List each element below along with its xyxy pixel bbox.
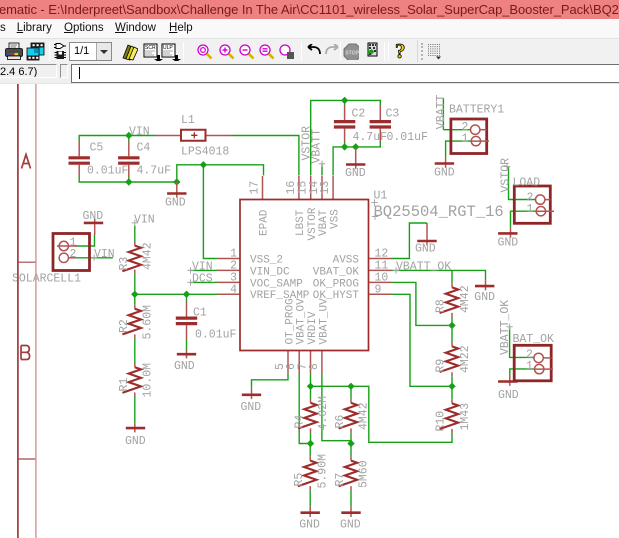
svg-text:ULP: ULP (163, 45, 173, 51)
svg-text:4.7uF: 4.7uF (137, 165, 172, 178)
svg-text:BAT_OK: BAT_OK (513, 333, 555, 346)
svg-text:C1: C1 (193, 307, 207, 320)
svg-text:SCR: SCR (145, 45, 156, 51)
svg-text:OK_PROG: OK_PROG (313, 278, 359, 290)
svg-text:GND: GND (340, 519, 361, 532)
svg-text:R4: R4 (294, 415, 307, 429)
svg-text:GND: GND (498, 389, 519, 402)
svg-text:5.60M: 5.60M (142, 305, 155, 340)
svg-text:R3: R3 (118, 257, 131, 271)
svg-text:VSTOR: VSTOR (499, 158, 512, 193)
svg-text:VBATT: VBATT (435, 95, 448, 130)
svg-text:BATTERY1: BATTERY1 (449, 104, 504, 117)
svg-text:LBST: LBST (295, 209, 307, 236)
svg-text:VSS: VSS (329, 209, 341, 229)
svg-text:1: 1 (462, 133, 469, 146)
svg-text:1: 1 (526, 360, 533, 373)
svg-text:STOP: STOP (345, 51, 359, 57)
svg-text:VBAT_OV: VBAT_OV (296, 298, 308, 345)
svg-text:OT_PROG: OT_PROG (284, 298, 296, 344)
svg-text:4M22: 4M22 (459, 345, 472, 373)
svg-text:VBAT_OK: VBAT_OK (313, 266, 360, 278)
svg-text:VRDIV: VRDIV (307, 311, 319, 344)
svg-text:5M60: 5M60 (358, 460, 371, 488)
svg-text:AVSS: AVSS (333, 254, 360, 266)
svg-text:0.01uF: 0.01uF (87, 165, 129, 178)
svg-text:9: 9 (375, 283, 382, 296)
svg-text:L1: L1 (181, 114, 195, 127)
svg-text:GND: GND (474, 291, 495, 304)
svg-text:GND: GND (299, 519, 320, 532)
svg-text:GND: GND (434, 167, 455, 180)
svg-text:8: 8 (308, 363, 321, 370)
svg-text:C5: C5 (90, 142, 104, 155)
svg-text:VSTOR: VSTOR (307, 207, 319, 240)
svg-text:1: 1 (527, 203, 534, 216)
svg-text:U1: U1 (374, 190, 388, 203)
svg-text:GND: GND (125, 435, 146, 448)
svg-text:R7: R7 (334, 473, 347, 487)
svg-text:R2: R2 (118, 319, 131, 333)
svg-text:?: ? (395, 40, 406, 62)
svg-text:4.02M: 4.02M (317, 396, 330, 431)
svg-text:VIN: VIN (129, 125, 150, 138)
svg-text:GND: GND (241, 401, 262, 414)
svg-text:13: 13 (319, 181, 332, 195)
svg-text:SOLARCELL1: SOLARCELL1 (12, 273, 81, 286)
svg-text:GND: GND (415, 243, 436, 256)
svg-text:LOAD: LOAD (513, 177, 541, 190)
svg-text:R9: R9 (435, 359, 448, 373)
svg-text:0.01uF: 0.01uF (195, 329, 237, 342)
svg-text:4.7uF: 4.7uF (353, 131, 388, 144)
svg-text:4M42: 4M42 (142, 242, 155, 270)
svg-text:GND: GND (83, 210, 104, 223)
svg-text:VBATT: VBATT (311, 129, 324, 164)
svg-text:R5: R5 (293, 473, 306, 487)
svg-text:VBATT_OK: VBATT_OK (499, 300, 512, 355)
svg-text:R8: R8 (435, 299, 448, 313)
svg-text:1M43: 1M43 (459, 403, 472, 431)
svg-text:VIN_DC: VIN_DC (250, 266, 290, 278)
svg-text:R1: R1 (118, 378, 131, 392)
svg-text:LPS4018: LPS4018 (181, 146, 229, 159)
svg-text:VBATT_OK: VBATT_OK (396, 260, 451, 273)
svg-text:VIN: VIN (94, 248, 115, 261)
svg-text:4M42: 4M42 (358, 402, 371, 430)
svg-text:GND: GND (498, 237, 519, 250)
svg-text:2: 2 (70, 248, 77, 261)
svg-text:10.0M: 10.0M (142, 363, 155, 398)
svg-text:5.90M: 5.90M (317, 454, 330, 489)
svg-text:GND: GND (174, 360, 195, 373)
svg-text:VIN: VIN (134, 213, 155, 226)
svg-text:GND: GND (165, 197, 186, 210)
svg-text:R6: R6 (334, 415, 347, 429)
svg-text:EPAD: EPAD (259, 209, 271, 236)
svg-text:C3: C3 (386, 108, 400, 121)
svg-text:C2: C2 (352, 108, 366, 121)
svg-text:GND: GND (345, 167, 366, 180)
svg-text:0.01uF: 0.01uF (387, 131, 429, 144)
svg-text:4M42: 4M42 (459, 285, 472, 313)
svg-text:VSS_2: VSS_2 (250, 254, 283, 266)
svg-text:17: 17 (249, 181, 262, 195)
svg-text:R10: R10 (435, 411, 448, 432)
svg-text:VOC_SAMP: VOC_SAMP (250, 278, 303, 290)
svg-text:VBAT_UV: VBAT_UV (318, 298, 330, 345)
svg-text:4: 4 (230, 283, 237, 296)
svg-text:C4: C4 (137, 142, 151, 155)
svg-text:DCS: DCS (192, 272, 213, 285)
svg-text:BQ25504_RGT_16: BQ25504_RGT_16 (374, 203, 504, 221)
